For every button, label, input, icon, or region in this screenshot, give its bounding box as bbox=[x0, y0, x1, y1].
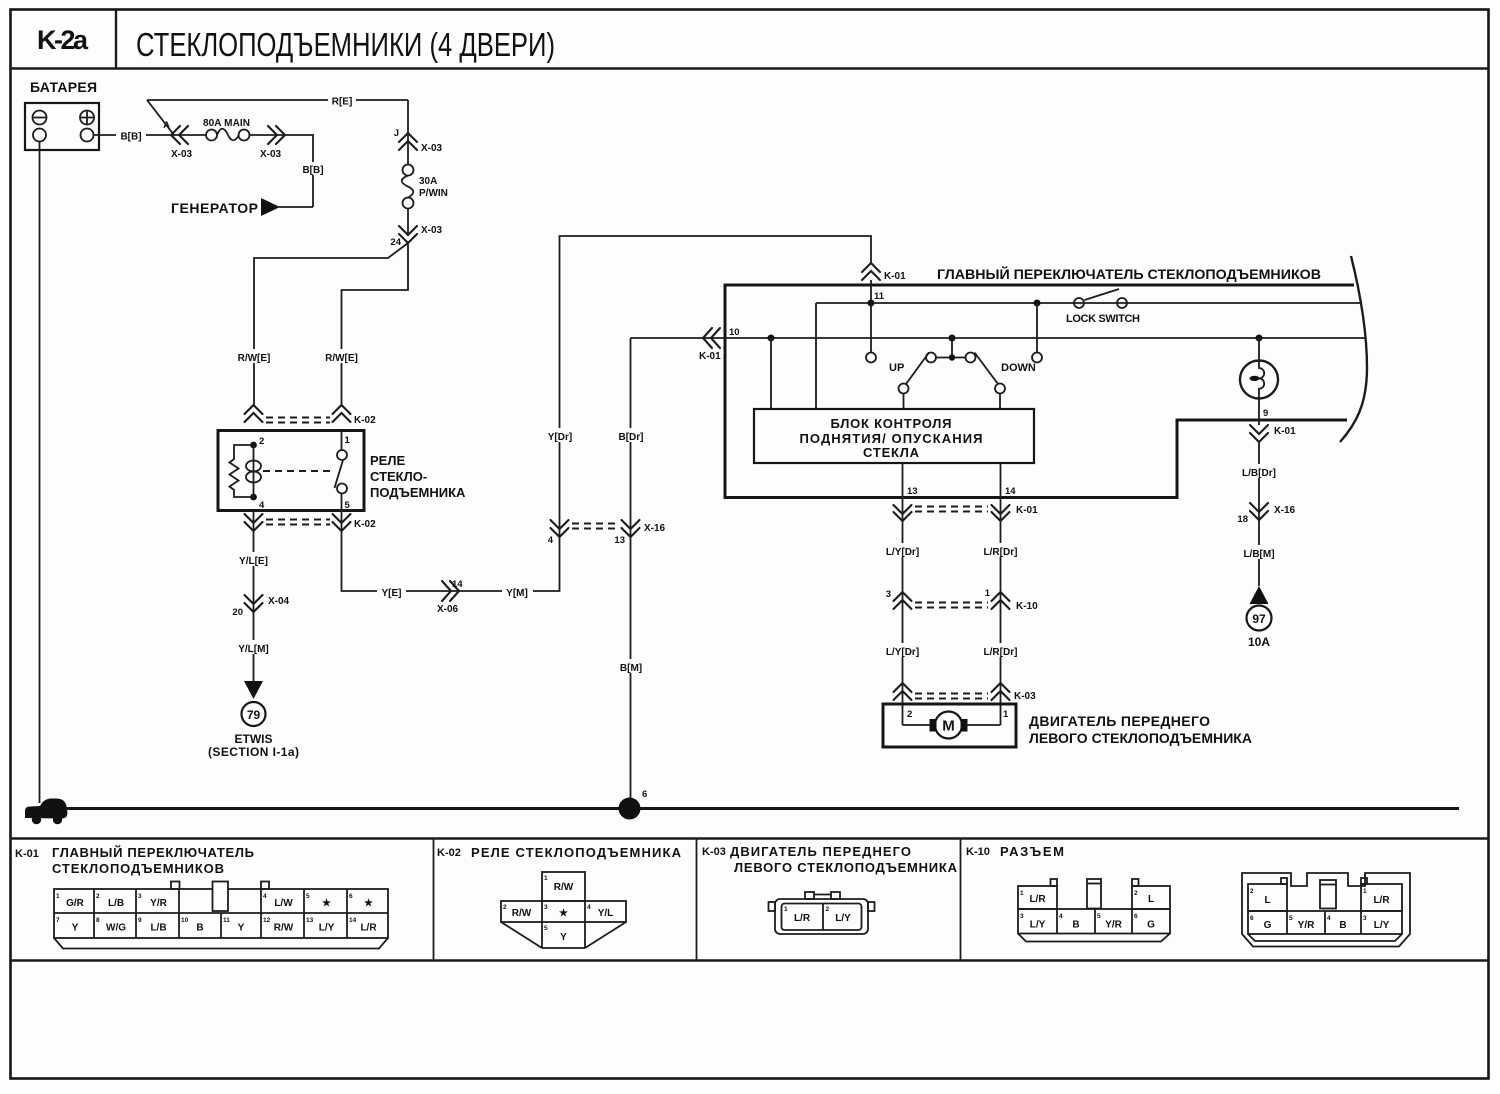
svg-text:6: 6 bbox=[642, 789, 647, 800]
title separator line bbox=[11, 67, 1489, 69]
svg-text:3: 3 bbox=[138, 893, 142, 900]
svg-text:ГЛАВНЫЙ ПЕРЕКЛЮЧАТЕЛЬ СТЕКЛОПО: ГЛАВНЫЙ ПЕРЕКЛЮЧАТЕЛЬ СТЕКЛОПОДЪЕМНИКОВ bbox=[937, 265, 1321, 282]
svg-text:K-01: K-01 bbox=[884, 271, 906, 282]
relay pin5 stub bbox=[341, 494, 343, 511]
svg-text:14: 14 bbox=[349, 917, 357, 924]
section divider K03/K10 bbox=[960, 839, 962, 961]
svg-text:ЛЕВОГО СТЕКЛОПОДЪЕМНИКА: ЛЕВОГО СТЕКЛОПОДЪЕМНИКА bbox=[734, 860, 958, 875]
relay contact arm bbox=[335, 460, 344, 488]
fuse 30A P/WIN bbox=[403, 165, 414, 176]
battery negative post bbox=[33, 129, 46, 142]
svg-text:14: 14 bbox=[1005, 486, 1016, 497]
ground bus wire bbox=[64, 807, 1459, 810]
node dot wire10 to control block bbox=[768, 335, 775, 342]
rocker common bar bbox=[936, 357, 966, 359]
svg-text:3: 3 bbox=[1363, 915, 1367, 922]
svg-text:L/W: L/W bbox=[274, 898, 293, 909]
lock switch contacts bbox=[1074, 298, 1084, 308]
svg-text:X-06: X-06 bbox=[437, 604, 459, 615]
svg-text:2: 2 bbox=[1134, 890, 1138, 897]
svg-text:L/R: L/R bbox=[1029, 894, 1046, 905]
svg-text:G: G bbox=[1147, 920, 1155, 931]
wire rail to control block left bbox=[815, 303, 817, 409]
svg-text:3: 3 bbox=[1020, 913, 1024, 920]
svg-text:97: 97 bbox=[1252, 612, 1266, 626]
svg-text:1: 1 bbox=[784, 906, 788, 913]
svg-text:2: 2 bbox=[826, 906, 830, 913]
svg-text:Y/R: Y/R bbox=[150, 898, 167, 909]
svg-text:K-01: K-01 bbox=[1274, 426, 1296, 437]
svg-text:G: G bbox=[52, 805, 60, 816]
svg-text:R[E]: R[E] bbox=[332, 97, 353, 108]
svg-text:Y[M]: Y[M] bbox=[506, 588, 528, 599]
wire down to rocker common bbox=[951, 338, 953, 358]
wire label R/W[E] left bbox=[234, 349, 275, 363]
node dot pin11 bbox=[868, 300, 875, 307]
wire node to lamp bbox=[1258, 338, 1260, 361]
svg-text:10A: 10A bbox=[1248, 635, 1270, 649]
svg-text:Y/R: Y/R bbox=[1105, 920, 1122, 931]
UP feed contact bbox=[866, 353, 876, 363]
motor M1 box bbox=[883, 704, 1016, 747]
svg-text:4: 4 bbox=[1059, 913, 1063, 920]
svg-text:СТЕКЛА: СТЕКЛА bbox=[863, 445, 920, 460]
section divider K02/K03 bbox=[696, 839, 698, 961]
wire label B[B] bbox=[300, 162, 327, 175]
node 4 bbox=[619, 798, 641, 820]
wire 10 horizontal rail bbox=[631, 337, 1367, 339]
wire control block pin14 to motor pin1 bbox=[1000, 463, 1002, 725]
wire R[E] down to J connector bbox=[407, 100, 409, 164]
wire pin11 into box bbox=[870, 280, 872, 303]
svg-text:L/Y: L/Y bbox=[319, 923, 335, 934]
svg-text:L: L bbox=[1264, 895, 1270, 906]
connector K-03 chevrons bbox=[894, 683, 912, 700]
K-10 male wire colours bbox=[1029, 894, 1155, 931]
wire R[E] horizontal bbox=[147, 99, 408, 101]
lamp branch node bbox=[1256, 335, 1263, 342]
svg-text:R/W: R/W bbox=[554, 882, 574, 893]
svg-text:X-16: X-16 bbox=[644, 523, 666, 534]
svg-text:ETWIS: ETWIS bbox=[235, 732, 273, 746]
connector K-01 chevrons pin11 bbox=[862, 263, 880, 280]
svg-text:L/Y: L/Y bbox=[1374, 920, 1390, 931]
section divider line bbox=[11, 837, 1489, 839]
relay contact fixed bbox=[337, 450, 347, 460]
connector 13 X-16 chevrons right bbox=[622, 520, 640, 537]
svg-text:ГЛАВНЫЙ ПЕРЕКЛЮЧАТЕЛЬ: ГЛАВНЫЙ ПЕРЕКЛЮЧАТЕЛЬ bbox=[52, 845, 254, 860]
svg-text:13: 13 bbox=[614, 535, 625, 546]
relay K-02 box bbox=[218, 431, 364, 511]
svg-text:ДВИГАТЕЛЬ ПЕРЕДНЕГО: ДВИГАТЕЛЬ ПЕРЕДНЕГО bbox=[1029, 713, 1210, 729]
section bottom line bbox=[11, 959, 1489, 961]
svg-text:2: 2 bbox=[259, 436, 264, 447]
relay resistor branch bbox=[230, 445, 254, 497]
connector K-10 female pinout drawing bbox=[1242, 873, 1410, 947]
svg-text:1: 1 bbox=[985, 588, 991, 599]
connector K-03 dashed pair bbox=[915, 693, 988, 695]
K-01 cell pin numbers bbox=[56, 893, 357, 924]
DOWN switch arm bbox=[975, 353, 999, 385]
svg-text:5: 5 bbox=[544, 925, 548, 932]
svg-text:24: 24 bbox=[390, 237, 401, 248]
svg-text:БАТАРЕЯ: БАТАРЕЯ bbox=[30, 79, 97, 95]
svg-text:R/W[E]: R/W[E] bbox=[325, 353, 358, 364]
svg-text:4: 4 bbox=[263, 893, 267, 900]
connector 20 X-04 chevrons bbox=[245, 595, 263, 612]
svg-text:РАЗЪЕМ: РАЗЪЕМ bbox=[1000, 844, 1064, 859]
svg-text:G/R: G/R bbox=[66, 898, 85, 909]
illumination lamp bbox=[1240, 361, 1278, 399]
section divider K01/K02 bbox=[433, 839, 435, 961]
wire fuse to 24 connector bbox=[407, 209, 409, 236]
svg-text:11: 11 bbox=[223, 917, 230, 924]
svg-text:M: M bbox=[942, 718, 955, 735]
svg-text:1: 1 bbox=[1020, 890, 1024, 897]
svg-text:X-04: X-04 bbox=[268, 596, 290, 607]
svg-text:L/Y[Dr]: L/Y[Dr] bbox=[886, 647, 919, 658]
connector 4 X-16 chevrons left bbox=[551, 520, 569, 537]
lock switch arm bbox=[1085, 289, 1120, 300]
svg-text:13: 13 bbox=[907, 486, 918, 497]
svg-text:4: 4 bbox=[548, 535, 554, 546]
battery positive post bbox=[81, 129, 94, 142]
arrow to fuse 97 bbox=[1250, 586, 1269, 604]
wire generator arrow to junction bbox=[279, 206, 313, 208]
connector K-10 male pinout drawing bbox=[1018, 879, 1170, 942]
svg-text:L/R[Dr]: L/R[Dr] bbox=[984, 547, 1018, 558]
wire fuse to corner bbox=[250, 135, 314, 207]
svg-text:4: 4 bbox=[626, 802, 633, 816]
connector K-01 chevrons pins13-14 bbox=[894, 505, 912, 521]
svg-text:10: 10 bbox=[729, 327, 740, 338]
wire label L/R[Dr] bbox=[981, 543, 1021, 557]
connector K-02 bottom dashed pair bbox=[266, 519, 330, 521]
svg-text:9: 9 bbox=[138, 917, 142, 924]
K-02 cell wire colours bbox=[512, 882, 614, 943]
K-02 cell pin numbers bbox=[503, 875, 591, 932]
wire label L/Y[Dr] bbox=[883, 543, 923, 557]
svg-text:12: 12 bbox=[263, 917, 271, 924]
main switch box break curve bbox=[1340, 256, 1367, 442]
svg-text:80A MAIN: 80A MAIN bbox=[203, 118, 250, 129]
wire label Y[Dr] bbox=[543, 428, 577, 442]
battery plus terminal bbox=[80, 111, 94, 125]
svg-text:L/B: L/B bbox=[108, 898, 124, 909]
wire label L/B[Dr] bbox=[1240, 464, 1279, 478]
svg-text:18: 18 bbox=[1237, 514, 1248, 525]
svg-text:W/G: W/G bbox=[106, 923, 126, 934]
svg-text:L: L bbox=[1148, 894, 1154, 905]
UP switch arm bbox=[906, 353, 929, 385]
connector J X-03 chevrons bbox=[399, 133, 417, 150]
svg-text:3: 3 bbox=[544, 904, 548, 911]
wire 11 horizontal rail bbox=[816, 302, 1361, 304]
svg-text:K-03: K-03 bbox=[1014, 691, 1036, 702]
svg-text:K-01: K-01 bbox=[15, 848, 39, 860]
wire label L/Y[Dr] lower bbox=[883, 643, 923, 657]
svg-text:2: 2 bbox=[96, 893, 100, 900]
svg-text:L/R: L/R bbox=[1373, 895, 1390, 906]
svg-text:РЕЛЕ СТЕКЛОПОДЪЕМНИКА: РЕЛЕ СТЕКЛОПОДЪЕМНИКА bbox=[471, 845, 682, 860]
wire motor pin2 lead bbox=[903, 724, 932, 726]
svg-text:Y/L: Y/L bbox=[598, 908, 614, 919]
title cell divider bbox=[115, 10, 117, 69]
svg-text:B[M]: B[M] bbox=[620, 663, 642, 674]
node dot wire10 center contact bbox=[949, 335, 956, 342]
ground G car symbol bbox=[25, 799, 67, 819]
svg-text:UP: UP bbox=[889, 362, 904, 374]
connector 14 X-06 chevrons bbox=[442, 581, 459, 601]
svg-text:2: 2 bbox=[907, 709, 912, 720]
wire label Y[E] bbox=[377, 584, 406, 598]
svg-text:X-16: X-16 bbox=[1274, 505, 1296, 516]
motor M bbox=[935, 712, 962, 739]
svg-text:L/Y: L/Y bbox=[835, 913, 851, 924]
svg-text:L/R: L/R bbox=[360, 923, 377, 934]
svg-text:8: 8 bbox=[96, 917, 100, 924]
connector 24 X-03 chevrons bbox=[399, 226, 417, 243]
connector K-02 top dashed pair bbox=[266, 417, 330, 419]
svg-text:P/WIN: P/WIN bbox=[419, 188, 448, 199]
svg-text:4: 4 bbox=[1327, 915, 1331, 922]
wire to control block from wire10 bbox=[770, 338, 772, 409]
svg-text:LOCK SWITCH: LOCK SWITCH bbox=[1066, 313, 1140, 325]
svg-text:Y/L[E]: Y/L[E] bbox=[239, 556, 268, 567]
K-10 female pin numbers bbox=[1250, 888, 1367, 922]
svg-text:30A: 30A bbox=[419, 176, 437, 187]
svg-text:★: ★ bbox=[364, 898, 373, 909]
svg-text:5: 5 bbox=[1097, 913, 1101, 920]
svg-text:СТЕКЛОПОДЪЕМНИКОВ: СТЕКЛОПОДЪЕМНИКОВ bbox=[52, 861, 224, 876]
svg-text:ДВИГАТЕЛЬ ПЕРЕДНЕГО: ДВИГАТЕЛЬ ПЕРЕДНЕГО bbox=[730, 844, 911, 859]
svg-text:B[B]: B[B] bbox=[120, 132, 141, 143]
svg-text:L/B: L/B bbox=[150, 923, 166, 934]
svg-text:4: 4 bbox=[587, 904, 591, 911]
svg-text:РЕЛЕ: РЕЛЕ bbox=[370, 453, 405, 468]
svg-text:L/Y[Dr]: L/Y[Dr] bbox=[886, 547, 919, 558]
svg-text:G: G bbox=[1264, 920, 1272, 931]
K-10 female wire colours bbox=[1264, 895, 1391, 931]
svg-text:20: 20 bbox=[232, 607, 243, 618]
connector 10 K-01 chevrons bbox=[703, 328, 720, 348]
wire label Y/L[M] bbox=[234, 640, 273, 654]
connector 9 K-01 chevrons bbox=[1250, 425, 1268, 442]
svg-text:1: 1 bbox=[56, 893, 60, 900]
wire label L/B[M] bbox=[1240, 545, 1279, 559]
svg-text:K-03: K-03 bbox=[702, 846, 726, 858]
svg-text:L/R[Dr]: L/R[Dr] bbox=[984, 647, 1018, 658]
svg-text:ГЕНЕРАТОР: ГЕНЕРАТОР bbox=[171, 200, 258, 216]
svg-text:X-03: X-03 bbox=[171, 149, 193, 160]
connector K-02 bottom chevrons bbox=[245, 514, 263, 531]
wire label L/R[Dr] lower bbox=[981, 643, 1021, 657]
wire label Y/L[E] bbox=[235, 552, 273, 566]
wire label Y[M] bbox=[502, 584, 533, 598]
arrow to ETWIS bbox=[244, 681, 263, 699]
wire tap diagonal to R[E] bbox=[147, 100, 174, 135]
svg-text:L/R: L/R bbox=[794, 913, 811, 924]
svg-text:K-02: K-02 bbox=[354, 519, 376, 530]
svg-text:9: 9 bbox=[1263, 408, 1268, 419]
svg-text:K-02: K-02 bbox=[354, 415, 376, 426]
connector X-03 chevrons right of fuse bbox=[268, 126, 285, 144]
svg-text:79: 79 bbox=[247, 708, 261, 722]
rocker bar right contact bbox=[966, 353, 976, 363]
connector K-02 top chevrons bbox=[245, 405, 263, 422]
K-03 cell wire colours bbox=[794, 913, 851, 924]
wire DOWN contact to control block bbox=[999, 394, 1001, 410]
node dot lock branch bbox=[1034, 300, 1041, 307]
relay pin1 stub bbox=[341, 431, 343, 451]
svg-text:2: 2 bbox=[503, 904, 507, 911]
wire battery plus to fuse bbox=[94, 134, 207, 136]
relay armature dashed link bbox=[263, 470, 333, 472]
svg-text:1: 1 bbox=[1003, 709, 1009, 720]
generator arrow bbox=[261, 198, 280, 216]
battery minus terminal bbox=[33, 111, 47, 125]
circle node 97 bbox=[1247, 606, 1272, 631]
wire 11 drop to UP contact bbox=[870, 303, 872, 353]
svg-text:L/Y: L/Y bbox=[1030, 920, 1046, 931]
svg-text:J: J bbox=[394, 128, 399, 139]
svg-text:2: 2 bbox=[1250, 888, 1254, 895]
wire label B[M] bbox=[616, 659, 646, 673]
svg-text:1: 1 bbox=[1363, 888, 1367, 895]
UP output contact bbox=[899, 384, 909, 394]
svg-text:X-03: X-03 bbox=[421, 225, 443, 236]
svg-text:ПОДЪЕМНИКА: ПОДЪЕМНИКА bbox=[370, 485, 466, 500]
DOWN output contact bbox=[995, 384, 1005, 394]
svg-text:Y[Dr]: Y[Dr] bbox=[548, 432, 572, 443]
svg-text:X-03: X-03 bbox=[260, 149, 282, 160]
svg-text:11: 11 bbox=[874, 291, 885, 302]
wire label B[Dr] bbox=[615, 428, 647, 442]
wire motor pin1 lead bbox=[966, 724, 1001, 726]
svg-text:ПОДНЯТИЯ/ ОПУСКАНИЯ: ПОДНЯТИЯ/ ОПУСКАНИЯ bbox=[800, 431, 983, 446]
svg-text:7: 7 bbox=[56, 917, 60, 924]
wire label B[B] bbox=[116, 128, 146, 141]
battery BATT box bbox=[25, 103, 99, 150]
svg-text:6: 6 bbox=[1134, 913, 1138, 920]
svg-text:Y: Y bbox=[72, 923, 79, 934]
rocker bar left contact bbox=[926, 353, 936, 363]
wire UP contact to control block bbox=[903, 394, 905, 410]
svg-text:R/W[E]: R/W[E] bbox=[238, 353, 271, 364]
relay coil top node bbox=[250, 442, 257, 449]
svg-text:Y[E]: Y[E] bbox=[382, 588, 402, 599]
circle node 79 bbox=[242, 702, 266, 726]
svg-text:K-10: K-10 bbox=[1016, 601, 1038, 612]
svg-text:K-02: K-02 bbox=[437, 847, 461, 859]
fuse 80A MAIN bbox=[206, 130, 217, 141]
svg-text:СТЕКЛО-: СТЕКЛО- bbox=[370, 469, 427, 484]
svg-text:★: ★ bbox=[322, 898, 331, 909]
svg-text:5: 5 bbox=[306, 893, 310, 900]
wire control block pin13 to motor pin2 bbox=[902, 463, 904, 725]
svg-text:13: 13 bbox=[306, 917, 314, 924]
connector K-01 pinout drawing bbox=[54, 882, 388, 949]
relay coil bbox=[253, 445, 255, 497]
connector K-01 dashed pair bbox=[915, 506, 988, 508]
wire B ground branch bbox=[630, 338, 632, 798]
svg-text:СТЕКЛОПОДЪЕМНИКИ (4 ДВЕРИ): СТЕКЛОПОДЪЕМНИКИ (4 ДВЕРИ) bbox=[136, 26, 555, 63]
svg-text:B: B bbox=[196, 923, 203, 934]
svg-text:L/B[M]: L/B[M] bbox=[1243, 549, 1274, 560]
connector K-10 chevrons bbox=[894, 592, 912, 609]
connector A X-03 chevrons bbox=[171, 126, 188, 144]
wire lock junction drop to DOWN contact bbox=[1036, 303, 1038, 353]
svg-text:ЛЕВОГО СТЕКЛОПОДЪЕМНИКА: ЛЕВОГО СТЕКЛОПОДЪЕМНИКА bbox=[1029, 730, 1252, 746]
svg-text:K-2a: K-2a bbox=[37, 25, 89, 55]
K-03 cell pin numbers bbox=[784, 906, 830, 913]
main switch U1 box outline bbox=[725, 285, 1354, 498]
svg-text:DOWN: DOWN bbox=[1001, 362, 1036, 374]
svg-text:5: 5 bbox=[345, 500, 351, 511]
svg-text:B[B]: B[B] bbox=[302, 165, 323, 176]
svg-text:6: 6 bbox=[1250, 915, 1254, 922]
svg-text:Y: Y bbox=[560, 932, 567, 943]
DOWN feed contact bbox=[1032, 353, 1042, 363]
connector K-03 pinout drawing bbox=[769, 892, 875, 934]
svg-text:L/B[Dr]: L/B[Dr] bbox=[1242, 468, 1276, 479]
wire battery negative to ground bus bbox=[39, 142, 41, 804]
wire relay pin4 down to ETWIS bbox=[253, 511, 255, 682]
svg-text:B: B bbox=[1072, 920, 1079, 931]
svg-text:Y/R: Y/R bbox=[1298, 920, 1315, 931]
svg-text:★: ★ bbox=[559, 908, 568, 919]
svg-text:R/W: R/W bbox=[512, 908, 532, 919]
svg-text:4: 4 bbox=[259, 500, 265, 511]
svg-text:K-01: K-01 bbox=[1016, 505, 1038, 516]
relay coil bottom node bbox=[250, 494, 257, 501]
svg-text:K-01: K-01 bbox=[699, 351, 721, 362]
svg-text:10: 10 bbox=[181, 917, 189, 924]
svg-text:5: 5 bbox=[1289, 915, 1293, 922]
wire lamp branch down bbox=[1258, 442, 1260, 586]
wire label R[E] bbox=[328, 94, 356, 107]
svg-text:6: 6 bbox=[349, 893, 353, 900]
svg-text:Y/L[M]: Y/L[M] bbox=[238, 644, 269, 655]
svg-text:14: 14 bbox=[452, 579, 463, 590]
control block box bbox=[754, 409, 1034, 463]
svg-text:B[Dr]: B[Dr] bbox=[619, 432, 644, 443]
svg-text:X-03: X-03 bbox=[421, 143, 443, 154]
connector K-10 dashed pair bbox=[915, 602, 988, 604]
svg-text:K-10: K-10 bbox=[966, 846, 990, 858]
svg-text:1: 1 bbox=[345, 435, 351, 446]
wire right branch to relay pin1 bbox=[342, 243, 409, 407]
K-01 cell wire colours bbox=[66, 898, 377, 934]
relay contact moving bbox=[337, 484, 347, 494]
svg-text:B: B bbox=[1339, 920, 1346, 931]
connector 18 X-16 chevrons bbox=[1250, 503, 1268, 520]
wire relay pin5 to Y[M] run bbox=[342, 236, 872, 591]
connector X-16 dashed pair bbox=[572, 523, 618, 525]
wire label R/W[E] right bbox=[321, 349, 362, 363]
svg-text:БЛОК КОНТРОЛЯ: БЛОК КОНТРОЛЯ bbox=[831, 416, 952, 431]
wire lamp to pin 9 bbox=[1258, 399, 1260, 426]
svg-text:R/W: R/W bbox=[274, 923, 294, 934]
svg-text:(SECTION I-1a): (SECTION I-1a) bbox=[208, 745, 299, 759]
connector K-02 pinout drawing bbox=[501, 872, 626, 948]
svg-text:Y: Y bbox=[238, 923, 245, 934]
K-10 male pin numbers bbox=[1020, 890, 1138, 920]
svg-text:3: 3 bbox=[886, 589, 891, 600]
wire split diagonal left branch bbox=[254, 243, 408, 407]
svg-text:1: 1 bbox=[544, 875, 548, 882]
